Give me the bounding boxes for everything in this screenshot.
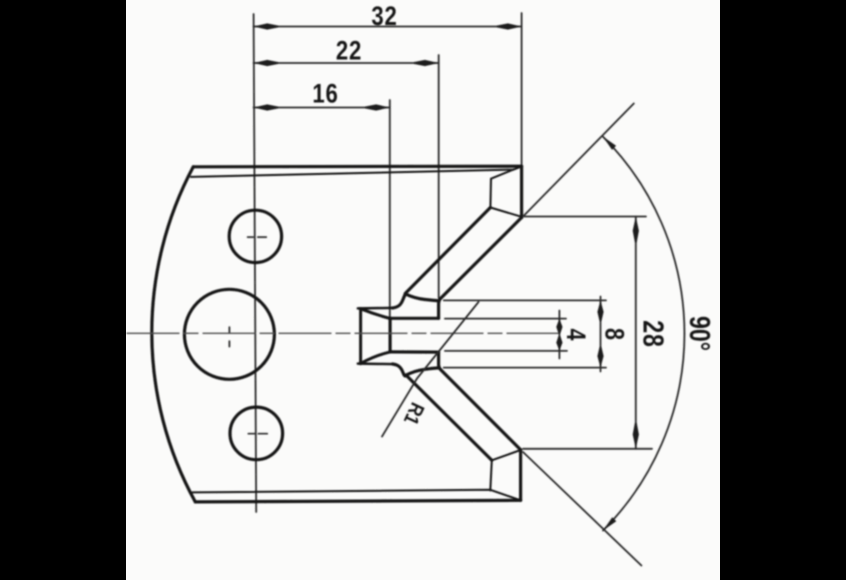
part outline: lower V outer edge — [441, 370, 521, 450]
part outline: lower lip line — [358, 362, 394, 365]
arrow 16 right — [365, 104, 390, 110]
part outline: bottom chamfer quad — [490, 450, 520, 491]
angled extension line lower 45 — [523, 452, 641, 566]
svg-text:4: 4 — [561, 328, 591, 340]
part outline: lower ear S-curve — [393, 364, 407, 376]
part outline: lower bevel runout wave — [405, 368, 439, 376]
dimension 22 line — [254, 62, 439, 64]
arrow 28 bottom — [633, 423, 639, 449]
arc 90 degrees — [603, 137, 685, 531]
black bar left — [0, 0, 126, 580]
horizontal centerline — [127, 332, 563, 334]
wire: extension line 32 at x=521.6 — [521, 13, 523, 165]
arrow arc upper — [603, 137, 616, 150]
part outline: bottom outer edge — [195, 500, 520, 502]
hole circle small top — [229, 210, 281, 262]
part outline: upper ear S-curve — [393, 293, 407, 309]
arrow 8 top — [597, 300, 603, 321]
part outline: left arc edge — [152, 167, 196, 502]
part outline: bottom inner bevel line — [192, 490, 520, 501]
black bar right — [720, 0, 846, 580]
dimension 8 line — [600, 297, 602, 372]
extension line 28 top — [524, 216, 646, 218]
dimension texts — [312, 2, 716, 429]
svg-text:22: 22 — [336, 37, 362, 67]
extension line 4 top — [445, 318, 566, 320]
dimension 32 line — [254, 26, 522, 28]
leader line R1 — [382, 302, 479, 437]
part outline: upper lip line — [358, 307, 394, 310]
svg-text:32: 32 — [371, 2, 397, 32]
arrow 4 bottom — [556, 336, 562, 351]
wire: extension line 22 at x=438.7 — [438, 55, 440, 298]
svg-text:16: 16 — [312, 80, 338, 110]
part outline: lower slot wall — [390, 350, 439, 353]
arrow 32 left — [254, 23, 279, 29]
extension line 8 bottom — [444, 367, 606, 369]
svg-text:90°: 90° — [683, 316, 716, 351]
crosshair small bottom hole — [248, 433, 267, 435]
angled extension line upper 45 — [524, 104, 634, 216]
crosshair small top hole — [248, 236, 267, 238]
hole circle small bottom — [230, 407, 283, 460]
svg-text:8: 8 — [599, 328, 629, 340]
arrow 8 bottom — [597, 347, 603, 368]
part outline: lower wall end drop — [439, 352, 441, 369]
dimension 16 line — [254, 107, 390, 109]
part outline: funnel upper edge — [361, 309, 390, 319]
part outline: upper bevel runout wave — [405, 294, 439, 301]
part outline: lower inner bevel 45 — [406, 375, 492, 460]
extension line 8 top — [444, 299, 606, 301]
arrow 4 top — [556, 319, 562, 334]
part outline: upper inner bevel 45 — [406, 208, 490, 293]
extension line 28 bottom — [523, 448, 652, 450]
part outline: slot mouth face vertical — [389, 318, 392, 352]
part outline: right lower edge — [519, 450, 522, 500]
arrow 22 right — [414, 60, 439, 66]
dimension 28 line — [635, 217, 637, 449]
svg-text:28: 28 — [637, 320, 670, 347]
part outline: upper V outer edge — [439, 218, 522, 319]
crosshair large hole vertical tick — [228, 327, 230, 346]
part outline: top chamfer quad — [490, 170, 522, 217]
arrow arc lower — [603, 517, 616, 530]
hole circle large — [184, 289, 274, 379]
arrow 16 left — [254, 104, 279, 110]
part outline: top outer edge — [193, 165, 521, 169]
wire: extension line 16 at x=389.8 — [389, 100, 391, 318]
part outline: right upper edge — [520, 166, 523, 217]
arrowheads — [254, 23, 639, 530]
part outline: top inner bevel line — [191, 166, 522, 177]
arrow 22 left — [254, 60, 279, 66]
part outline: upper slot wall — [390, 317, 439, 320]
dimension 4 line — [558, 311, 560, 359]
wire: hole centerline vertical x=253.5 — [254, 14, 257, 512]
arrow 32 right — [497, 23, 522, 29]
extension line 4 bottom — [445, 350, 567, 352]
arrow 28 top — [633, 217, 639, 243]
part outline: mouth vertical lip — [359, 309, 362, 364]
part outline: funnel lower edge — [361, 352, 390, 363]
